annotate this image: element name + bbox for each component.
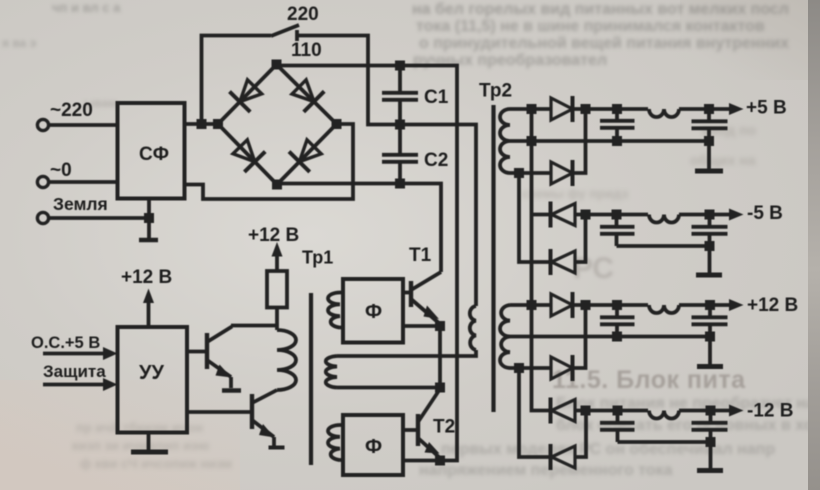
transistor Q1 collector <box>207 326 277 343</box>
node T2 collector <box>435 383 445 393</box>
wire +5 winding bottom down to -5 D2 <box>519 173 551 262</box>
ground bar +12 <box>697 364 723 369</box>
svg-text:C1: C1 <box>424 87 449 108</box>
wire -12 rail <box>575 409 733 413</box>
capacitor +5 first <box>600 104 635 146</box>
svg-text:О.С.+5 В: О.С.+5 В <box>31 334 100 352</box>
Tp1 feedback winding <box>326 356 337 388</box>
transistor T2 collector <box>418 389 440 422</box>
Tp1 upper secondary winding <box>328 293 340 328</box>
wire common vertical from +5 rail to -12 diode feed <box>532 109 552 411</box>
wire upper secondary to driver block <box>340 293 344 328</box>
terminal ~0 <box>37 176 48 187</box>
wire bridge right return to filter <box>185 124 354 199</box>
driver transistor Q2 base wire <box>187 410 252 414</box>
capacitor +12 second with ground <box>692 300 728 364</box>
wire D2 -12 up to rail <box>575 411 586 458</box>
diode bridge VD4 bottom-right <box>289 140 321 172</box>
driver block Ф lower <box>343 415 403 475</box>
wire D2 +12 up to rail <box>573 305 586 368</box>
ground stub Q1 emitter <box>229 377 233 388</box>
capacitor -12 second with ground <box>692 406 728 469</box>
node +12 winding bottom <box>514 363 524 373</box>
wire filter output to bridge <box>185 122 215 126</box>
ghost small top-left <box>52 0 172 15</box>
wire resistor to Tp1 primary <box>275 308 279 331</box>
node C2 bottom <box>395 179 405 189</box>
capacitor C2 <box>382 126 418 184</box>
bridge arm top-right <box>277 65 337 125</box>
svg-text:~220: ~220 <box>50 100 93 121</box>
transistor T1 collector <box>411 272 441 290</box>
transistor Q2 base bar <box>250 394 254 429</box>
svg-text:+5 В: +5 В <box>746 98 787 119</box>
node cap midpoint <box>395 120 405 130</box>
svg-text:+12 В: +12 В <box>248 225 299 246</box>
ground bar Q2 <box>269 446 285 450</box>
transistor Q1 base bar <box>205 333 209 369</box>
input arrow Защита <box>43 378 118 391</box>
diode D1 +5 <box>551 96 573 122</box>
inductor choke +5 <box>649 109 679 117</box>
node +5 after diode <box>581 104 591 114</box>
node -12 after diode <box>581 406 591 416</box>
wire upper winding top lead <box>510 107 551 111</box>
wire earth stub down <box>147 218 151 238</box>
wire midpoint T1 emitter to T2 collector <box>438 326 442 388</box>
capacitor +5 second with ground <box>692 104 728 169</box>
wire Ф lower to T2 base <box>403 428 418 432</box>
svg-text:Тр1: Тр1 <box>302 248 333 268</box>
driver block Ф upper <box>343 279 403 343</box>
diode bridge VD2 top-right <box>292 80 324 112</box>
Tp2 secondary winding lower group <box>500 305 510 368</box>
node +12 after diode <box>581 300 591 310</box>
inductor choke -12 <box>649 411 679 419</box>
node T2 emitter <box>435 456 445 466</box>
wire D2 -5 up to rail <box>575 215 586 263</box>
capacitor -5 second with ground <box>692 210 728 273</box>
svg-text:Тр2: Тр2 <box>479 81 512 102</box>
svg-text:УУ: УУ <box>139 362 164 384</box>
inductor choke -5 <box>649 215 679 223</box>
terminal ~220 <box>37 119 48 130</box>
label УУ block <box>118 327 188 433</box>
svg-text:-12 В: -12 В <box>747 401 793 422</box>
ground bar +5 <box>695 169 723 174</box>
wire bridge bottom to C2 bottom and T1 collector drop <box>277 184 441 273</box>
transformer Tp2 primary winding <box>470 306 476 350</box>
diode D2 -12 <box>551 444 576 470</box>
output arrow +5 <box>729 103 744 115</box>
wire 220 switch riser <box>202 36 272 125</box>
diode D1 -12 <box>551 398 576 424</box>
transistor T2 emitter with arrow <box>418 438 440 458</box>
wire 220 to cap midpoint <box>297 36 386 125</box>
svg-text:+12 В: +12 В <box>121 267 172 288</box>
ground bar -5 <box>696 273 722 278</box>
wire -12 return rail <box>618 440 711 444</box>
node switch tap <box>197 119 207 129</box>
svg-text:Земля: Земля <box>53 194 108 214</box>
diode D1 -5 <box>551 202 576 228</box>
wire earth to filter bottom <box>147 198 151 218</box>
resistor R1 <box>267 271 287 308</box>
diode bridge VD1 top-left <box>230 80 262 112</box>
input arrow О.С.+5 В <box>43 347 118 360</box>
node -5 after diode <box>581 210 591 220</box>
node +5 winding tap vertical top <box>527 104 537 114</box>
bridge arm bottom-left <box>218 124 277 185</box>
node earth junction <box>144 213 154 223</box>
wire -5 rail <box>575 213 733 217</box>
capacitor -12 first <box>600 406 635 443</box>
ground bar -12 <box>697 468 723 473</box>
wire Земля <box>49 216 149 220</box>
capacitor +12 first <box>600 300 635 342</box>
wire feedback winding to midpoint node <box>337 386 440 390</box>
diode bridge VD3 bottom-left <box>233 140 265 172</box>
node bridge top <box>272 60 282 70</box>
transistor Q1 emitter with arrow <box>207 360 232 378</box>
wire 110 rail from bridge top, down right side to T2 emitter <box>277 66 458 461</box>
node +12 winding-vertical junction <box>527 300 537 310</box>
node bridge bottom <box>272 180 282 190</box>
wire D2 +5 up to rail <box>573 109 586 173</box>
wire +5 winding bottom lead <box>510 171 551 175</box>
output arrow -5 <box>729 209 744 221</box>
driver transistor Q1 base wire <box>187 350 207 354</box>
terminal Земля <box>37 212 48 223</box>
wire Ф upper to T1 emitter node <box>403 324 440 328</box>
svg-text:220: 220 <box>287 4 319 25</box>
node C1 top <box>395 61 405 71</box>
node tap-rail left <box>527 136 537 146</box>
capacitor -5 first <box>600 210 635 247</box>
output arrow +12 <box>729 299 744 311</box>
wire lower secondary to driver block <box>340 425 344 460</box>
svg-text:C2: C2 <box>424 150 448 171</box>
ghost big РС letters <box>573 252 633 286</box>
output arrow -12 <box>729 405 744 417</box>
ground stub under УУ <box>147 433 151 451</box>
svg-text:Защита: Защита <box>43 362 106 381</box>
wire -5 D1 feed <box>532 213 551 217</box>
wire cap midpoint to Tp2 primary <box>386 125 476 307</box>
node bridge right <box>332 119 342 129</box>
wire feedback winding to Tp2 primary bottom <box>337 350 476 356</box>
node T1 emitter <box>435 321 445 331</box>
wire ~0 input <box>49 180 118 184</box>
power arrow +12 В above resistor <box>272 242 283 271</box>
wire ~220 input <box>49 123 118 127</box>
ground bar Q1 <box>222 388 241 392</box>
wire lower winding top lead <box>510 303 551 307</box>
node +5 winding bottom <box>514 168 524 178</box>
wire +12 return rail from tap <box>510 335 710 339</box>
inductor choke +12 <box>649 305 679 313</box>
transformer Tp1 primary winding <box>277 330 296 390</box>
svg-text:T1: T1 <box>409 245 432 266</box>
wire +12 rail <box>573 303 734 307</box>
Tp2 core <box>491 105 495 412</box>
switch blade 220 <box>271 25 299 36</box>
wire Ф lower to T2 emitter rail <box>403 459 445 463</box>
svg-text:СФ: СФ <box>139 144 169 165</box>
svg-text:Ф: Ф <box>365 301 382 323</box>
Tp1 lower secondary winding <box>328 425 340 460</box>
svg-text:T2: T2 <box>433 417 455 438</box>
svg-text:Ф: Ф <box>365 436 382 458</box>
transistor T1 emitter with arrow <box>411 299 440 324</box>
svg-text:+12 В: +12 В <box>747 295 798 316</box>
bridge arm top-left <box>218 65 277 125</box>
wire -5 return rail <box>617 244 710 248</box>
ground bar under УУ <box>131 450 168 455</box>
Tp2 secondary winding upper group <box>500 109 510 173</box>
transistor T1 base bar <box>409 281 413 307</box>
ghost big title 11.5 Блок питания <box>552 366 820 395</box>
wire +12 winding bottom lead <box>510 366 551 370</box>
ghost paragraph bottom-left <box>76 420 266 435</box>
svg-text:-5 В: -5 В <box>747 203 783 224</box>
diode D2 -5 <box>551 249 576 275</box>
svg-text:110: 110 <box>291 40 322 61</box>
diode D1 +12 <box>551 292 573 318</box>
ground stub Q2 emitter <box>272 437 276 446</box>
svg-text:~0: ~0 <box>50 160 72 181</box>
switch contact tick <box>295 30 299 41</box>
capacitor C1 <box>382 66 418 124</box>
wire +5 rail <box>573 107 734 111</box>
wire +5 return rail from tap <box>510 139 709 143</box>
ghost faint right-middle lines <box>702 122 820 138</box>
mains filter block СФ <box>118 103 185 199</box>
Tp1 core <box>309 293 313 465</box>
wire +12 winding bottom down to -12 D2 <box>519 368 551 457</box>
diode D2 +12 <box>551 355 573 381</box>
transistor Q2 emitter with arrow <box>252 420 275 438</box>
bridge arm bottom-right <box>277 124 337 185</box>
transistor Q2 collector to Tp1 primary bottom <box>252 390 277 403</box>
power arrow +12 В into УУ <box>143 289 154 328</box>
transistor T2 base bar <box>416 414 420 446</box>
node bridge left <box>213 119 223 129</box>
wire Ф upper to T1 base <box>403 291 411 295</box>
ghost bleed-through paragraph top-right <box>412 1 820 19</box>
diode D2 +5 <box>551 160 573 186</box>
ghost paragraph bottom-right <box>556 395 820 413</box>
ground bar under filter <box>139 238 158 243</box>
